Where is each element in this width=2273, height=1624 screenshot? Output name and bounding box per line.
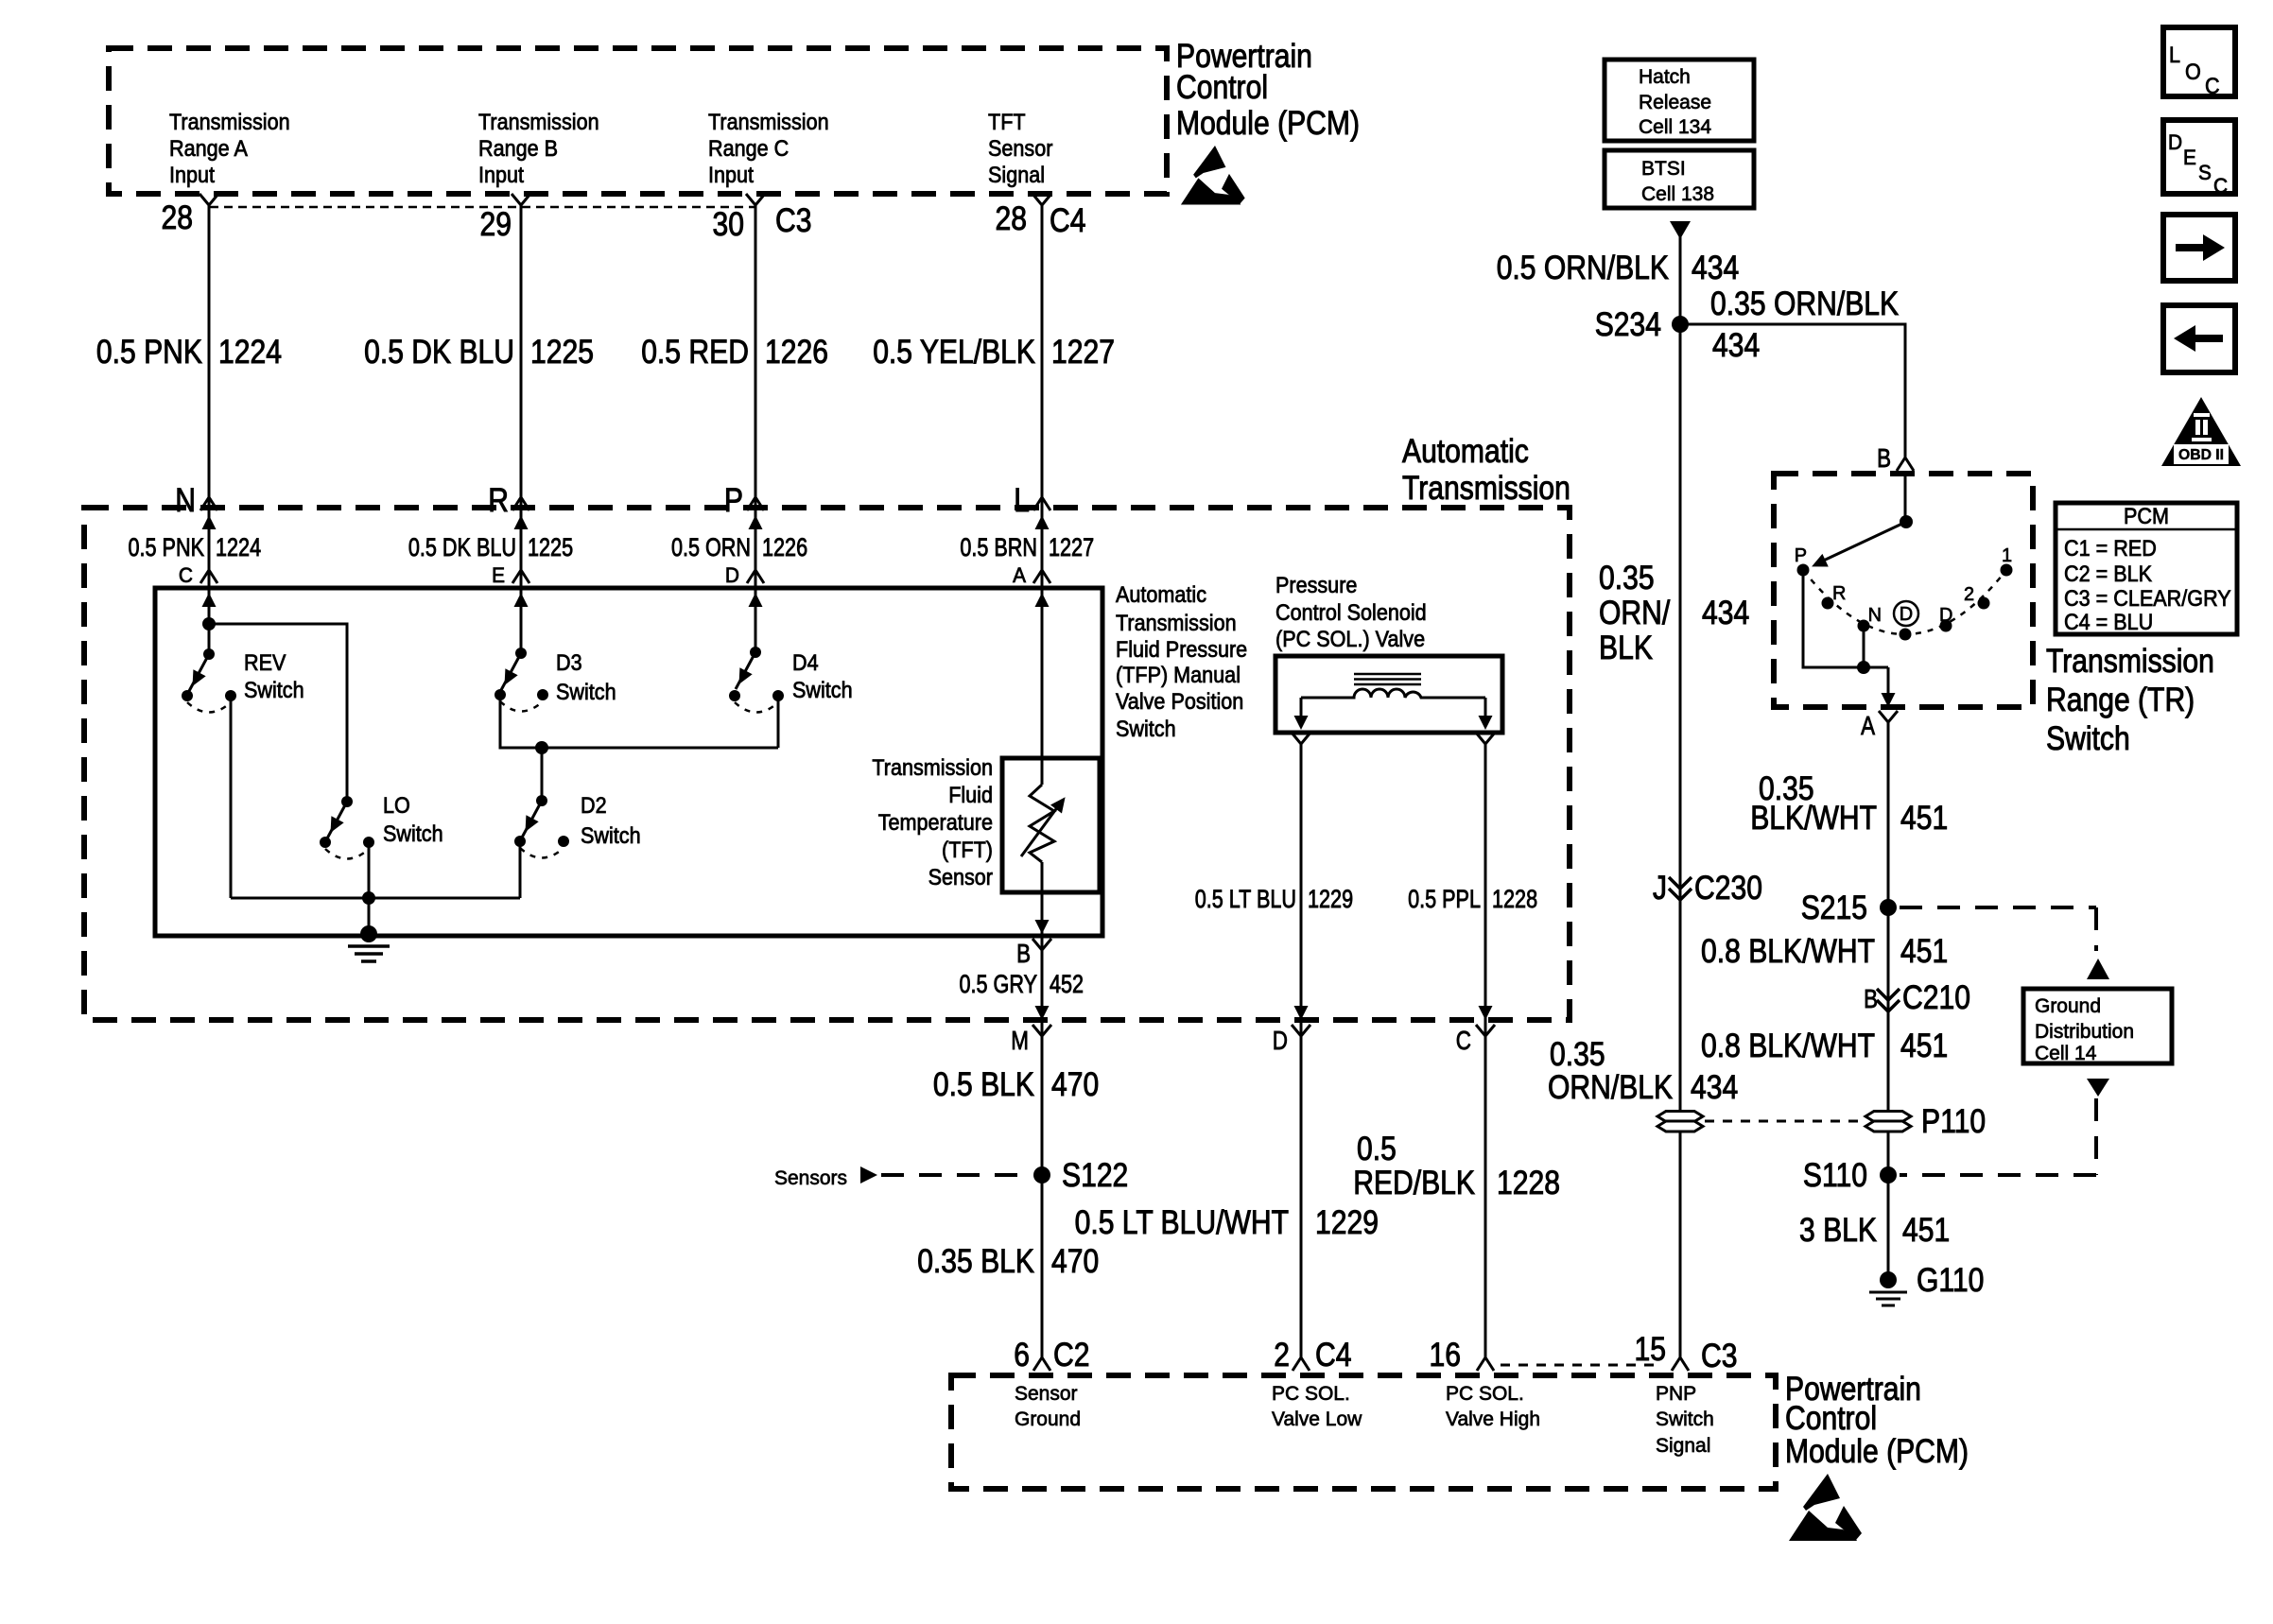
svg-text:E: E: [492, 563, 505, 587]
wire 1224 PNK vertical: [208, 205, 211, 654]
label 0.5 RED 1226: [641, 334, 828, 371]
svg-text:(PC SOL.) Valve: (PC SOL.) Valve: [1275, 627, 1425, 652]
svg-text:0.5: 0.5: [1357, 1131, 1397, 1167]
svg-text:Module (PCM): Module (PCM): [1176, 105, 1360, 142]
svg-text:D: D: [2168, 130, 2182, 154]
arrow down at AT box exit wire4: [1035, 1006, 1050, 1020]
svg-text:C2 = BLK: C2 = BLK: [2064, 561, 2152, 587]
ESD symbol bottom PCM: [1789, 1474, 1862, 1541]
pin 28 C4 female: [1032, 194, 1051, 205]
TR switch dashed box: [1774, 474, 2033, 707]
label 0.35 ORN/ BLK 434: [1599, 560, 1749, 666]
svg-text:0.5 ORN: 0.5 ORN: [671, 533, 751, 561]
label 0.5 LT BLU/WHT 1229: [1075, 1204, 1379, 1241]
dashed S215 to ground distribution: [1900, 907, 2096, 951]
wire P contact to exit: [1803, 570, 1888, 667]
arrow up into AT box wire4: [1035, 515, 1050, 529]
svg-text:Distribution: Distribution: [2035, 1021, 2134, 1043]
pin C female AT exit: [1476, 1025, 1495, 1036]
Automatic Transmission dashed box: [84, 508, 1570, 1020]
svg-text:434: 434: [1692, 250, 1739, 286]
svg-text:Temperature: Temperature: [878, 810, 993, 836]
title Powertrain Control Module (PCM) bottom: [1785, 1371, 1969, 1470]
BTSI Cell 138 box: [1605, 150, 1754, 208]
arrow up into AT box wire1: [202, 515, 217, 529]
arrow up into TFP box wire4: [1035, 593, 1050, 607]
wire REV contact to ground line: [230, 696, 233, 898]
label PC SOL. Valve High: [1446, 1383, 1540, 1430]
svg-text:0.5 LT BLU: 0.5 LT BLU: [1195, 885, 1296, 913]
label D4 Switch: [792, 650, 853, 703]
label TFT Sensor Signal: [988, 110, 1052, 188]
svg-text:C: C: [1456, 1026, 1471, 1055]
TR contact N: [1858, 620, 1870, 632]
svg-text:Input: Input: [169, 163, 215, 188]
svg-text:434: 434: [1691, 1069, 1738, 1106]
solenoid coil: [1301, 689, 1485, 698]
DESC icon box: [2163, 120, 2235, 198]
svg-text:E: E: [2183, 146, 2196, 169]
wire 451 BLK/WHT vertical: [1887, 722, 1890, 1278]
svg-text:B: B: [1016, 939, 1031, 968]
node S215: [1880, 899, 1897, 916]
svg-text:OBD II: OBD II: [2178, 447, 2224, 463]
D4 switch: [729, 647, 784, 713]
pin 28 C3 female: [200, 194, 218, 205]
arrow down AT exit wire C: [1479, 1006, 1493, 1020]
label 0.5 BRN 1227 inside: [960, 533, 1094, 561]
label 0.5 GRY 452: [960, 970, 1084, 998]
svg-text:1226: 1226: [762, 533, 807, 561]
svg-text:Transmission: Transmission: [872, 755, 993, 781]
svg-text:28: 28: [996, 200, 1028, 237]
svg-text:Switch: Switch: [556, 680, 616, 705]
arrow up into TFP box wire2: [514, 593, 529, 607]
wire TR exit with arrow: [1882, 667, 1896, 707]
svg-text:1227: 1227: [1051, 334, 1115, 371]
wire 1229 LT BLU vertical: [1300, 744, 1303, 1357]
svg-text:0.35: 0.35: [1550, 1036, 1605, 1073]
svg-text:Switch: Switch: [581, 823, 641, 849]
svg-text:0.5 DK BLU: 0.5 DK BLU: [408, 533, 516, 561]
svg-text:1224: 1224: [216, 533, 261, 561]
label 0.5 PNK 1224: [96, 334, 282, 371]
arrow up to ground distribution: [2087, 959, 2109, 979]
svg-text:ORN/: ORN/: [1599, 595, 1670, 631]
svg-text:REV: REV: [244, 650, 286, 676]
D3 switch: [495, 648, 548, 712]
svg-text:Release: Release: [1639, 92, 1711, 113]
arrow down from ground distribution: [2087, 1079, 2109, 1097]
svg-text:Transmission: Transmission: [478, 110, 599, 135]
svg-text:L: L: [1014, 482, 1030, 519]
pin 6 C2 male: [1033, 1357, 1050, 1371]
svg-text:C1 = RED: C1 = RED: [2064, 536, 2157, 561]
svg-text:1225: 1225: [528, 533, 573, 561]
label Transmission Range C Input: [708, 110, 829, 188]
svg-text:0.5 RED: 0.5 RED: [641, 334, 749, 371]
svg-text:C230: C230: [1694, 870, 1762, 907]
svg-text:D: D: [1939, 605, 1952, 626]
wire N contact down: [1863, 626, 1865, 667]
label Transmission Fluid Temperature (TFT) Sensor: [872, 755, 993, 890]
svg-text:15: 15: [1635, 1331, 1667, 1368]
svg-text:434: 434: [1712, 327, 1760, 364]
dashed ground distribution to S110: [1900, 1098, 2096, 1175]
label 0.8 BLK/WHT 451 lower: [1701, 1028, 1948, 1064]
svg-text:Switch: Switch: [2046, 720, 2130, 757]
svg-text:Cell 138: Cell 138: [1641, 183, 1714, 205]
label 0.35 ORN/BLK 434 lower: [1548, 1036, 1738, 1106]
node D3/D2 junction: [535, 741, 548, 754]
svg-text:0.5 DK BLU: 0.5 DK BLU: [364, 334, 514, 371]
svg-text:470: 470: [1051, 1243, 1099, 1280]
pin A female TR exit: [1879, 711, 1898, 722]
svg-text:1224: 1224: [218, 334, 282, 371]
svg-text:434: 434: [1702, 595, 1749, 631]
svg-text:D2: D2: [581, 793, 607, 819]
label 0.5 ORN 1226 inside: [671, 533, 807, 561]
svg-text:C3 = CLEAR/GRY: C3 = CLEAR/GRY: [2064, 586, 2231, 612]
svg-text:470: 470: [1051, 1066, 1099, 1103]
right arrow icon box: [2163, 215, 2235, 281]
svg-text:D4: D4: [792, 650, 819, 676]
title Powertrain Control Module (PCM) top: [1176, 38, 1360, 142]
TR contact P: [1797, 564, 1810, 577]
grommet P110: [1865, 1112, 1911, 1132]
pin 30 C3 female: [746, 194, 765, 205]
left arrow icon box: [2163, 305, 2235, 372]
svg-text:TFT: TFT: [988, 110, 1026, 135]
svg-text:1229: 1229: [1308, 885, 1353, 913]
node S110: [1880, 1166, 1897, 1183]
svg-text:ORN/BLK: ORN/BLK: [1548, 1069, 1673, 1106]
svg-text:S110: S110: [1803, 1157, 1867, 1194]
svg-text:Control: Control: [1176, 69, 1268, 106]
svg-text:Transmission: Transmission: [1402, 470, 1570, 507]
svg-text:1226: 1226: [765, 334, 828, 371]
svg-text:Transmission: Transmission: [1116, 611, 1237, 636]
svg-text:PCM: PCM: [2124, 504, 2169, 529]
svg-text:0.8 BLK/WHT: 0.8 BLK/WHT: [1701, 933, 1875, 970]
wire TFT to B pin and down to PCM pin 6: [1041, 862, 1044, 1357]
solenoid coil core lines: [1354, 674, 1421, 684]
svg-text:451: 451: [1900, 1028, 1948, 1064]
svg-text:A: A: [1013, 563, 1026, 587]
label 0.5 DK BLU 1225 inside: [408, 533, 573, 561]
label 0.5 YEL/BLK 1227: [873, 334, 1115, 371]
wire D4 contact down to cross wire: [777, 696, 780, 748]
label Transmission Range B Input: [478, 110, 599, 188]
TR contact R: [1822, 597, 1834, 610]
label 0.35 BLK/WHT 451: [1750, 770, 1948, 837]
svg-text:Switch: Switch: [1656, 1408, 1714, 1430]
svg-text:0.35 BLK: 0.35 BLK: [917, 1243, 1034, 1280]
ground G110: [1869, 1271, 1907, 1305]
svg-text:C4: C4: [1315, 1337, 1352, 1373]
label LO Switch: [383, 793, 443, 847]
label D2 Switch: [581, 793, 641, 849]
svg-text:Signal: Signal: [988, 163, 1045, 188]
REV switch: [182, 648, 236, 713]
wire branch S234 to TR switch: [1680, 324, 1905, 458]
svg-text:PNP: PNP: [1656, 1383, 1696, 1405]
PCM legend box: [2056, 503, 2237, 635]
svg-text:Automatic: Automatic: [1402, 433, 1529, 470]
TFT sensor box: [1002, 758, 1100, 892]
dashed sensors line: [881, 1173, 1030, 1177]
svg-text:N: N: [1868, 605, 1882, 626]
svg-text:D: D: [1900, 604, 1913, 625]
svg-text:Switch: Switch: [244, 678, 304, 703]
label 0.8 BLK/WHT 451: [1701, 933, 1948, 970]
label Sensors with arrow: [774, 1166, 877, 1189]
pin female PC SOL low: [1292, 733, 1310, 744]
svg-text:Valve High: Valve High: [1446, 1408, 1540, 1430]
label 3 BLK 451: [1799, 1212, 1950, 1249]
svg-text:0.5 ORN/BLK: 0.5 ORN/BLK: [1497, 250, 1669, 286]
svg-text:451: 451: [1902, 1212, 1950, 1249]
svg-text:C4 = BLU: C4 = BLU: [2064, 610, 2153, 635]
pin B male TR switch: [1897, 458, 1914, 471]
svg-text:29: 29: [480, 206, 512, 243]
svg-text:1228: 1228: [1492, 885, 1537, 913]
svg-text:S: S: [2198, 161, 2212, 184]
arrow down from BTSI: [1670, 221, 1691, 239]
dashed grommet link: [1705, 1120, 1864, 1123]
svg-text:C: C: [2205, 74, 2220, 99]
pin 29 C3 female: [512, 194, 530, 205]
title Automatic Transmission: [1402, 433, 1570, 507]
arrow down AT exit wire D: [1294, 1006, 1309, 1020]
PC SOL valve box: [1275, 656, 1502, 733]
arrow up into AT box wire3: [749, 515, 763, 529]
svg-text:LO: LO: [383, 793, 410, 819]
label 0.5 BLK 470: [933, 1066, 1099, 1103]
wire B into TR switch: [1904, 474, 1907, 522]
svg-text:Automatic: Automatic: [1116, 582, 1206, 608]
svg-text:B: B: [1877, 443, 1891, 473]
svg-text:C: C: [179, 563, 193, 587]
pin R male: [512, 497, 529, 510]
svg-text:Transmission: Transmission: [2046, 643, 2214, 680]
TR switch contact arc: [1803, 570, 2006, 634]
label 0.5 RED/BLK 1228: [1353, 1131, 1560, 1201]
pin L male: [1033, 497, 1050, 510]
pin N male: [200, 497, 217, 510]
label 0.5 PNK 1224 inside: [129, 533, 262, 561]
svg-text:Sensor: Sensor: [988, 136, 1052, 162]
pin 2 C4 male: [1293, 1357, 1310, 1371]
arrow up into AT box wire2: [514, 515, 529, 529]
svg-text:Control Solenoid: Control Solenoid: [1275, 600, 1427, 626]
svg-text:P: P: [1795, 545, 1807, 566]
svg-text:Range C: Range C: [708, 136, 789, 162]
OBD II triangle: [2161, 397, 2241, 466]
svg-text:1228: 1228: [1497, 1165, 1560, 1201]
connector B C210: [1877, 989, 1900, 1011]
svg-text:Valve Low: Valve Low: [1272, 1408, 1362, 1430]
label Pressure Control Solenoid (PC SOL.) Valve: [1275, 573, 1427, 652]
TR contact 1: [2001, 564, 2013, 577]
node TR junction: [1857, 661, 1870, 674]
node S234: [1672, 316, 1689, 333]
connector C3 dashed line bottom: [1501, 1364, 1661, 1367]
svg-text:Valve Position: Valve Position: [1116, 689, 1243, 715]
wire junction to D2 pivot: [541, 748, 544, 801]
svg-text:Input: Input: [478, 163, 524, 188]
svg-text:16: 16: [1430, 1337, 1462, 1373]
wire 1225 DK BLU vertical: [520, 205, 523, 653]
wire internal ground bus: [231, 897, 520, 900]
svg-text:Cell 14: Cell 14: [2035, 1043, 2097, 1064]
svg-text:D: D: [1273, 1026, 1288, 1055]
svg-text:R: R: [488, 482, 509, 519]
svg-text:0.5 PNK: 0.5 PNK: [129, 533, 205, 561]
TFT sensor resistor zigzag: [1030, 785, 1054, 862]
label 0.35 ORN/BLK 434 branch: [1710, 285, 1899, 364]
label D3 Switch: [556, 650, 616, 705]
svg-text:Range (TR): Range (TR): [2046, 682, 2195, 718]
svg-text:30: 30: [713, 206, 745, 243]
svg-text:0.5 PPL: 0.5 PPL: [1408, 885, 1481, 913]
pin P male: [747, 497, 764, 510]
svg-text:Range A: Range A: [169, 136, 248, 162]
pin E male: [512, 570, 529, 583]
label 0.5 LT BLU 1229: [1195, 885, 1353, 913]
TR contact 2: [1978, 597, 1990, 610]
ESD symbol top PCM: [1181, 146, 1245, 204]
label Transmission Range A Input: [169, 110, 290, 188]
svg-text:C3: C3: [1701, 1338, 1738, 1374]
pin 16 C3 male: [1477, 1357, 1494, 1371]
wire 1227 YEL/BLK vertical: [1041, 205, 1044, 785]
svg-text:L: L: [2169, 43, 2180, 68]
svg-text:1225: 1225: [530, 334, 594, 371]
svg-text:S234: S234: [1595, 306, 1661, 343]
pin D male: [747, 570, 764, 583]
svg-text:C4: C4: [1050, 202, 1086, 239]
svg-text:0.5 PNK: 0.5 PNK: [96, 334, 202, 371]
svg-text:(TFT): (TFT): [942, 838, 993, 863]
svg-text:PC SOL.: PC SOL.: [1446, 1383, 1524, 1405]
connector C3 dashed line: [210, 206, 755, 209]
pin B female TFP exit: [1032, 939, 1051, 950]
wire branch to LO switch: [209, 624, 347, 802]
svg-text:PC SOL.: PC SOL.: [1272, 1383, 1350, 1405]
Hatch Release Cell 134 box: [1605, 60, 1754, 141]
svg-text:Switch: Switch: [1116, 717, 1176, 742]
svg-text:0.5 BLK: 0.5 BLK: [933, 1066, 1034, 1103]
arrow down at TFP box exit: [1035, 920, 1050, 934]
svg-text:J: J: [1653, 870, 1667, 907]
title Transmission Range (TR) Switch: [2046, 643, 2214, 757]
wire 1226 RED vertical: [755, 205, 757, 652]
label Automatic Transmission Fluid Pressure (TFP) Manual Valve Position Switch: [1116, 582, 1247, 742]
TFT sensor arrow: [1021, 793, 1071, 856]
connector J C230: [1669, 877, 1692, 900]
LO switch: [320, 796, 374, 859]
TR switch rotor arm: [1809, 515, 1913, 573]
svg-text:C: C: [2213, 174, 2228, 198]
TR contact D: [1940, 620, 1952, 632]
svg-text:R: R: [1832, 583, 1846, 604]
svg-text:Hatch: Hatch: [1639, 66, 1691, 88]
svg-text:O: O: [2185, 60, 2201, 85]
svg-text:S122: S122: [1062, 1157, 1128, 1194]
svg-text:Sensor: Sensor: [1015, 1383, 1078, 1405]
svg-text:0.5 GRY: 0.5 GRY: [960, 970, 1038, 998]
label Sensor Ground: [1015, 1383, 1081, 1430]
svg-text:N: N: [175, 482, 196, 519]
svg-text:Module (PCM): Module (PCM): [1785, 1433, 1969, 1470]
pin 15 C3 male: [1672, 1357, 1689, 1371]
svg-text:Signal: Signal: [1656, 1435, 1710, 1457]
pin C male: [200, 570, 217, 583]
ground internal TFP: [348, 925, 390, 961]
svg-text:BTSI: BTSI: [1641, 158, 1686, 180]
svg-text:Sensors: Sensors: [774, 1167, 847, 1189]
TFP manual valve position switch box: [155, 588, 1102, 936]
svg-text:C210: C210: [1902, 979, 1970, 1016]
coil wires down with arrows: [1294, 698, 1493, 730]
svg-text:C2: C2: [1053, 1337, 1090, 1373]
PCM bottom dashed box: [951, 1375, 1776, 1489]
svg-text:RED/BLK: RED/BLK: [1353, 1165, 1475, 1201]
svg-text:D: D: [725, 563, 739, 587]
svg-text:1: 1: [2002, 545, 2012, 566]
TR contact D circled: [1894, 601, 1918, 641]
svg-text:6: 6: [1014, 1337, 1030, 1373]
svg-text:BLK/WHT: BLK/WHT: [1750, 800, 1877, 837]
svg-text:2: 2: [1274, 1337, 1290, 1373]
svg-text:1229: 1229: [1315, 1204, 1379, 1241]
svg-text:28: 28: [162, 199, 194, 236]
svg-text:451: 451: [1900, 800, 1948, 837]
svg-text:M: M: [1011, 1026, 1029, 1055]
svg-text:0.35: 0.35: [1599, 560, 1655, 596]
wire 434 ORN/BLK vertical: [1679, 221, 1682, 1357]
svg-text:(TFP) Manual: (TFP) Manual: [1116, 663, 1241, 688]
svg-text:P: P: [724, 482, 743, 519]
svg-text:0.5 YEL/BLK: 0.5 YEL/BLK: [873, 334, 1035, 371]
svg-text:Pressure: Pressure: [1275, 573, 1357, 598]
svg-text:3 BLK: 3 BLK: [1799, 1212, 1877, 1249]
label 0.35 BLK 470: [917, 1243, 1099, 1280]
svg-text:Input: Input: [708, 163, 754, 188]
wire D2 contact to ground bus: [519, 841, 522, 898]
node S122: [1033, 1166, 1050, 1183]
svg-text:Control: Control: [1785, 1400, 1877, 1437]
svg-text:452: 452: [1050, 970, 1084, 998]
svg-text:2: 2: [1964, 584, 1974, 605]
svg-text:G110: G110: [1917, 1262, 1984, 1299]
node ground bus junction: [362, 891, 375, 905]
node junction wire1 to LO branch: [202, 617, 216, 631]
label PNP Switch Signal: [1656, 1383, 1714, 1457]
label 0.5 DK BLU 1225: [364, 334, 594, 371]
svg-text:Transmission: Transmission: [708, 110, 829, 135]
svg-text:1227: 1227: [1049, 533, 1094, 561]
svg-text:0.8 BLK/WHT: 0.8 BLK/WHT: [1701, 1028, 1875, 1064]
wire D3 contact down and across: [500, 695, 778, 748]
svg-text:Sensor: Sensor: [928, 865, 993, 890]
wire LO contact to ground: [368, 842, 371, 934]
pin D female AT exit: [1292, 1025, 1310, 1036]
svg-text:Ground: Ground: [1015, 1408, 1081, 1430]
svg-text:B: B: [1864, 984, 1878, 1013]
svg-text:0.5 BRN: 0.5 BRN: [960, 533, 1037, 561]
